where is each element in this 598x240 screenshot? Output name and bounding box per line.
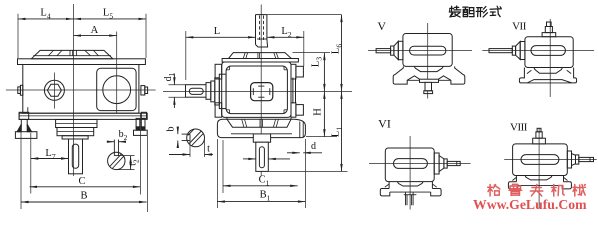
assembly view VII top shaft bbox=[542, 33, 556, 37]
dimension L2 bbox=[303, 31, 305, 66]
middle view bottom cover bbox=[226, 117, 228, 119]
assembly view VII base bbox=[519, 68, 576, 83]
dimension L3 extension from cap top bbox=[293, 52, 331, 54]
left view vertical centerline bbox=[73, 4, 75, 176]
assembly view VII body bbox=[525, 37, 573, 68]
middle view top cap bbox=[229, 53, 292, 59]
middle view base inner line bbox=[231, 133, 253, 135]
assembly view V bottom cover bowl bbox=[414, 66, 443, 71]
assembly view VIII slot bbox=[521, 155, 559, 165]
middle view output shaft bbox=[256, 142, 268, 171]
svg-text:VIII: VIII bbox=[510, 122, 528, 134]
middle view base right wing bbox=[271, 119, 306, 137]
assembly view VIII body bbox=[513, 144, 568, 176]
middle view body bbox=[222, 62, 291, 117]
dimension C bbox=[139, 113, 141, 195]
svg-text:H: H bbox=[312, 108, 323, 116]
assembly view VII input shaft bbox=[489, 49, 512, 53]
svg-text:V: V bbox=[377, 19, 386, 33]
svg-text:B: B bbox=[80, 191, 87, 202]
left view top plate bbox=[18, 59, 146, 65]
middle view output shaft keyway bbox=[259, 147, 264, 168]
middle view center shaft-end square bbox=[251, 83, 273, 101]
left view right foot plate end block bbox=[141, 112, 146, 118]
left view horizontal centerline bbox=[6, 89, 156, 91]
left view output shaft bbox=[69, 139, 83, 174]
left view right foot bbox=[136, 118, 140, 127]
dimension L1 bbox=[268, 170, 347, 172]
dimension H bbox=[323, 91, 325, 136]
dimension L3 bbox=[323, 53, 325, 92]
dimension t2 bbox=[119, 155, 135, 157]
middle view vertical centerline bbox=[260, 5, 262, 177]
middle view input shaft bbox=[186, 85, 207, 98]
dimension L6 extension from shaft top bbox=[267, 14, 342, 16]
middle view horizontal centerline bbox=[163, 90, 352, 92]
dimension d1 bbox=[169, 84, 186, 86]
assembly view VIII bottom cover bowl bbox=[525, 176, 552, 180]
left view key section hatch bbox=[110, 154, 122, 167]
middle view output collar bbox=[253, 134, 270, 142]
assembly view V slot bbox=[410, 46, 446, 55]
left view output flange square bbox=[97, 68, 136, 110]
left view top cover divisions bbox=[57, 50, 62, 55]
assembly view VII slot bbox=[531, 46, 565, 56]
left view body bbox=[23, 65, 139, 114]
left view output flange bore circle bbox=[103, 76, 131, 104]
assembly view VI bottom cover bowl bbox=[397, 182, 423, 186]
title: assembly configuration (Chinese) bbox=[450, 7, 454, 9]
svg-text:C: C bbox=[78, 176, 85, 187]
middle view body inner wall bbox=[226, 66, 287, 114]
svg-text:Www.GeLufu.Com: Www.GeLufu.Com bbox=[473, 197, 587, 212]
left view output flange step 2 bbox=[57, 128, 94, 136]
dimension d bbox=[287, 152, 300, 154]
left view left foot bbox=[20, 119, 22, 126]
left view drain plug tick bbox=[27, 107, 29, 113]
assembly view VIII centerlines bbox=[538, 128, 540, 208]
svg-text:t: t bbox=[207, 144, 210, 155]
svg-text:VII: VII bbox=[512, 21, 527, 33]
svg-text:L: L bbox=[214, 26, 220, 37]
middle view vertical shaft bbox=[255, 15, 257, 45]
middle view right tabs bbox=[291, 64, 296, 79]
middle view top cap divisions bbox=[243, 53, 245, 59]
dimension b bbox=[177, 127, 179, 135]
dimension B bbox=[20, 125, 22, 209]
dimension A bbox=[74, 35, 117, 37]
assembly view VI body bbox=[385, 148, 434, 182]
assembly view VIII output shaft right bbox=[567, 151, 571, 168]
left view base plate bbox=[19, 113, 147, 119]
watermark: company name (Chinese) bbox=[489, 185, 491, 196]
assembly view VI base bbox=[388, 182, 390, 189]
left view key section circle bbox=[108, 152, 125, 169]
left view right boss bbox=[141, 86, 145, 95]
middle view key section keyway bbox=[182, 133, 190, 135]
assembly view V output shaft down bbox=[425, 82, 432, 90]
middle view left tabs bbox=[215, 64, 222, 79]
assembly view VII base wing ticks bbox=[527, 70, 532, 73]
assembly view V centerlines bbox=[427, 23, 429, 99]
dimension H extension at base bottom bbox=[306, 136, 337, 138]
middle view bottom cover divisions bbox=[242, 119, 244, 127]
middle view input shaft collar bbox=[206, 83, 211, 100]
assembly view VI output shaft right bbox=[434, 153, 439, 174]
svg-text:A: A bbox=[91, 25, 99, 36]
middle view input bearing housing bbox=[211, 81, 215, 102]
left view output flange step 3 bbox=[62, 136, 88, 139]
middle view key section circle bbox=[187, 129, 205, 147]
assembly view VIII base bbox=[515, 176, 517, 182]
assembly view VIII top shaft bbox=[533, 138, 546, 144]
assembly view VI shaft down bbox=[404, 194, 417, 196]
dimension L4 bbox=[17, 14, 19, 58]
dimension t bbox=[189, 141, 191, 158]
left view left foot plate end block bbox=[19, 112, 29, 119]
dimension L7 bbox=[30, 133, 32, 194]
assembly view VI slot bbox=[394, 159, 428, 169]
assembly view V output flange block bbox=[420, 79, 439, 82]
middle view top plate bbox=[222, 59, 298, 63]
assembly view V input shaft bbox=[376, 49, 391, 53]
left view output shaft keyway bbox=[72, 144, 78, 168]
middle view base left wing bbox=[217, 119, 253, 137]
dimension b2 bbox=[107, 141, 114, 143]
assembly view VII bottom cover bowl bbox=[534, 68, 563, 74]
left view input shaft stub bbox=[20, 85, 22, 95]
middle view shaft flare bbox=[257, 38, 267, 40]
assembly view VI centerlines bbox=[409, 136, 411, 210]
left view top cover bbox=[31, 50, 113, 58]
middle view body inner wall corner steps bbox=[229, 66, 231, 70]
middle view key section hatch bbox=[189, 131, 201, 144]
dimension B1 bbox=[216, 139, 218, 208]
svg-text:b: b bbox=[166, 127, 177, 132]
assembly view VII centerlines bbox=[549, 19, 551, 97]
left view oil plug hexagon bbox=[44, 80, 64, 100]
dimension L bbox=[185, 31, 187, 80]
middle view right flange bbox=[292, 78, 294, 104]
svg-text:VI: VI bbox=[378, 117, 391, 131]
middle view base bolt hole bbox=[299, 122, 301, 138]
dimension d2 arrows at output shaft bbox=[243, 158, 256, 160]
left view output flange step 1 bbox=[56, 120, 97, 128]
assembly view V body bbox=[403, 34, 452, 67]
dimension L5 bbox=[145, 14, 147, 58]
assembly view V base bbox=[393, 66, 419, 84]
dimension L6 bbox=[341, 15, 343, 92]
left view key section keyway bbox=[113, 140, 115, 156]
dimension C1 bbox=[222, 140, 224, 193]
middle view input shaft keyway bbox=[189, 88, 203, 94]
svg-text:d: d bbox=[311, 141, 316, 152]
